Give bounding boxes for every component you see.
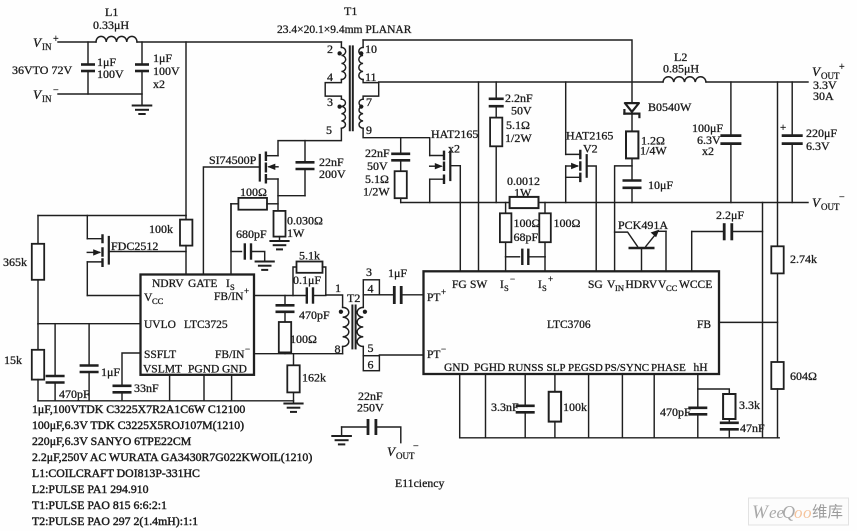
svg-text:36VTO 72V: 36VTO 72V [12, 63, 72, 77]
capacitor 22nF 250V [342, 419, 401, 443]
transistor Q2 FDC2512 label [111, 239, 158, 253]
svg-text:100k: 100k [149, 222, 173, 236]
label U1 pin UVLO [144, 319, 176, 331]
label 33nF [134, 381, 159, 395]
resistor 5.1R 1/2W (left snubber) [395, 171, 407, 202]
svg-text:470pF: 470pF [660, 405, 691, 419]
watermark text [752, 502, 843, 523]
transformer T2 winding 1-8 [343, 307, 349, 346]
resistor 100R (IS+ filter) [539, 203, 551, 257]
svg-text:3.3k: 3.3k [739, 398, 760, 412]
svg-text:33nF: 33nF [134, 381, 159, 395]
wire T2 pin4 to winding [362, 295, 364, 308]
transistor Q1 SI74500P label [209, 153, 257, 167]
capacitor 10uF [623, 181, 642, 203]
ground (input) [133, 106, 152, 115]
svg-text:0.1μF: 0.1μF [293, 273, 321, 287]
svg-text:1: 1 [335, 281, 341, 295]
label 2.74k [790, 252, 817, 266]
label U1 pin GND [222, 364, 247, 376]
svg-text:SW: SW [470, 279, 487, 291]
node VIN- label [33, 85, 59, 104]
svg-text:FG: FG [452, 279, 467, 291]
svg-text:100Ω: 100Ω [554, 216, 581, 230]
wire PEGSD down [588, 374, 590, 438]
label U1 pin IS [226, 278, 235, 292]
svg-text:NDRV: NDRV [152, 278, 184, 290]
capacitor 33nF (SSFLT) [113, 353, 141, 401]
svg-text:10μF: 10μF [648, 178, 673, 192]
label 2.2nF 50V snubber [505, 91, 533, 118]
label pin 9 [366, 123, 372, 137]
label U2 pin SLP [547, 362, 566, 374]
capacitor 0.1uF [307, 289, 326, 303]
label T2 pin 5 [368, 341, 374, 355]
wire U1 ground rail [38, 400, 294, 402]
svg-text:4: 4 [368, 282, 374, 296]
capacitor 680pF [231, 204, 265, 261]
label pin 4 [327, 70, 333, 84]
label U2 pin IS- [500, 274, 515, 293]
wire T2 pin8 [342, 347, 344, 354]
svg-text:3.3nF: 3.3nF [491, 400, 519, 414]
wire U2 ground rail [460, 437, 780, 439]
label 100R [239, 185, 267, 199]
node VIN+ label [33, 34, 59, 52]
svg-text:7: 7 [366, 95, 372, 109]
wire GND down [231, 375, 233, 401]
wire T2 pin1 [326, 295, 343, 307]
transistor Q2 FDC2512 [87, 234, 109, 267]
svg-text:SG: SG [588, 279, 603, 291]
ground (22nF 250V) [332, 427, 351, 444]
label 22nF 50V snubber [365, 146, 390, 173]
svg-text:3: 3 [366, 265, 372, 279]
label pin 2 [327, 42, 333, 56]
wire VCC riser [665, 231, 667, 271]
node VOUT- label (bottom) [387, 441, 419, 461]
label 47nF [740, 421, 765, 435]
label 365k [3, 255, 27, 269]
label 100R 68pF [514, 216, 541, 244]
label 1uF (PT+) [388, 266, 407, 280]
svg-text:68pF: 68pF [514, 230, 539, 244]
label U2 pin IS+ [538, 274, 553, 293]
capacitor 470pF (hH) [688, 374, 707, 438]
label 22nF 250V [357, 389, 384, 415]
capacitor 47nF [720, 423, 739, 438]
svg-text:2: 2 [327, 42, 333, 56]
svg-text:162k: 162k [302, 371, 326, 385]
capacitor 22nF 50V snubber [391, 138, 410, 172]
label 470pF (hH) [660, 405, 691, 419]
svg-text:220μF,6.3V SANYO 6TPE22CM: 220μF,6.3V SANYO 6TPE22CM [32, 434, 192, 448]
wire Q2 gate to NDRV node [109, 251, 186, 253]
svg-text:23.4×20.1×9.4mm PLANAR: 23.4×20.1×9.4mm PLANAR [277, 24, 412, 36]
svg-text:T2: T2 [347, 291, 360, 305]
inductor L2 [663, 77, 706, 82]
capacitor 470pF (UVLO) [46, 324, 65, 401]
svg-text:T2:PULSE PAO 297 2(1.4mH):1:1: T2:PULSE PAO 297 2(1.4mH):1:1 [32, 514, 198, 528]
label U2 pin hH [694, 362, 708, 374]
svg-text:+: + [839, 62, 845, 73]
wire 365k top line [38, 215, 186, 217]
svg-text:50V: 50V [367, 159, 388, 173]
label U2 pin RUNSS [508, 362, 543, 374]
svg-text:RUNSS: RUNSS [508, 362, 543, 374]
capacitor 22nF 200V [278, 141, 315, 196]
transformer T2 dot pin3 [363, 310, 367, 314]
transformer T1 dot pin3 [338, 105, 342, 109]
capacitor 68pF [506, 250, 545, 264]
svg-text:−: − [413, 441, 419, 452]
wire GATE riser to Q1 gate [203, 167, 259, 275]
label U1 pin PGND [188, 364, 219, 376]
label 470pF (FB) [299, 308, 330, 322]
svg-text:250V: 250V [357, 401, 384, 415]
svg-text:1/4W: 1/4W [640, 144, 667, 158]
svg-text:−: − [510, 274, 515, 284]
svg-text:E11ciency: E11ciency [395, 476, 444, 490]
transformer T1 dot pin2 [338, 51, 342, 55]
label pin 3 [327, 95, 333, 109]
label T2 pin 1 [335, 281, 341, 295]
svg-text:VSLMT: VSLMT [143, 364, 182, 376]
label 0.0012 1W [507, 174, 540, 200]
wire GND down (U2) [459, 374, 461, 438]
label U2 pin PGHD [474, 362, 505, 374]
label U2 pin PS/SYNC [605, 362, 650, 374]
svg-text:SI74500P: SI74500P [209, 153, 257, 167]
svg-text:30A: 30A [813, 89, 834, 103]
svg-text:PGHD: PGHD [474, 362, 505, 374]
resistor 162k [287, 354, 299, 403]
svg-text:100μF,6.3V TDK C3225X5ROJ107M(: 100μF,6.3V TDK C3225X5ROJ107M(1210) [32, 418, 244, 432]
svg-text:470pF: 470pF [299, 308, 330, 322]
transformer T1 winding 7-9 [359, 99, 363, 128]
wire FB line [719, 321, 778, 323]
svg-text:680pF: 680pF [236, 227, 267, 241]
capacitor 2.2nF 50V snubber [489, 82, 504, 118]
transistor Q5 PCK491A label [618, 218, 668, 232]
svg-text:hH: hH [694, 362, 708, 374]
svg-text:0.85μH: 0.85μH [663, 62, 699, 76]
label L2 value [663, 50, 699, 76]
wire T2 pin5 winding to box [362, 347, 364, 356]
transformer T1 dot pin7 [359, 105, 363, 109]
resistor 0.030R 1W [274, 211, 286, 241]
svg-text:200V: 200V [319, 167, 346, 181]
svg-text:L1:COILCRAFT DOI813P-331HC: L1:COILCRAFT DOI813P-331HC [32, 466, 200, 480]
resistor 100R (IS- filter) [500, 203, 512, 257]
label U1 pin GATE [188, 278, 217, 290]
svg-text:6.3V: 6.3V [806, 139, 830, 153]
svg-text:220μF: 220μF [806, 126, 837, 140]
label 100k (NDRV) [149, 222, 173, 236]
watermark box [749, 498, 849, 525]
label 100k (SLP) [563, 400, 587, 414]
label U2 pin PHASE [651, 362, 686, 374]
svg-text:LTC3725: LTC3725 [184, 319, 228, 331]
transformer T1 winding 10-11 [359, 40, 363, 79]
wire SW-node rail pin11 to L2 [379, 81, 808, 83]
label 100R (FB) [290, 332, 317, 346]
resistor 100R (FB) [279, 322, 291, 354]
svg-text:T1:PULSE PAO 815 6:6:2:1: T1:PULSE PAO 815 6:6:2:1 [32, 498, 167, 512]
label T2 pin 3 [366, 265, 372, 279]
svg-text:+: + [548, 274, 553, 284]
label 470pF (UVLO) [59, 387, 90, 401]
ground (0.030R) [270, 241, 288, 249]
label 36VTO 72V [12, 63, 72, 77]
resistor 5.1R 1/2W (right snubber) [490, 118, 502, 203]
label U1 pin NDRV [152, 278, 184, 290]
node VOUT+ label [812, 62, 845, 103]
label T2 pin 8 [335, 342, 341, 356]
transformer T2 label [347, 291, 360, 305]
label L1 value [93, 5, 129, 32]
svg-text:15k: 15k [4, 353, 22, 367]
svg-text:3: 3 [327, 95, 333, 109]
svg-text:LTC3706: LTC3706 [547, 319, 591, 331]
capacitor 1uF (PT+) [379, 286, 423, 304]
svg-text:5.1k: 5.1k [299, 249, 320, 263]
transformer T1 core [350, 46, 353, 130]
wire divider feed from VOUT+ [777, 82, 779, 246]
wire VOUT- sense rail [401, 202, 808, 204]
resistor 2.74k [771, 246, 783, 362]
svg-text:IN: IN [42, 42, 52, 52]
label U2 name LTC3706 [547, 319, 591, 331]
wire Q2 drain up [86, 216, 88, 239]
wire T1 pin9 to HAT2165 drain [363, 128, 430, 155]
svg-text:CC: CC [666, 283, 678, 293]
wire VIN tap [615, 166, 632, 271]
svg-text:PS/SYNC: PS/SYNC [605, 362, 650, 374]
transistor Q3 HAT2165 x2 [430, 151, 451, 184]
svg-text:FB/IN: FB/IN [214, 291, 244, 303]
node T2 pin 4 box [363, 280, 379, 295]
transistor Q3 HAT2165 x2 label [431, 127, 478, 156]
svg-text:L1: L1 [105, 5, 118, 19]
wire T1 pin5 to SI74500P drain [278, 128, 341, 156]
label 5.1R 1/2W (left snubber) [363, 172, 390, 199]
wire IS- riser [505, 257, 507, 272]
wire VIN- line [58, 93, 142, 95]
label U2 pin PT- [427, 344, 446, 361]
svg-text:2.2μF: 2.2μF [716, 208, 744, 222]
svg-text:FB/IN: FB/IN [215, 349, 245, 361]
svg-text:FB: FB [697, 319, 711, 331]
svg-text:W: W [752, 502, 770, 523]
svg-text:x2: x2 [153, 77, 165, 91]
wire T2 pin5 to PT- [379, 354, 423, 356]
svg-text:T1: T1 [344, 4, 357, 18]
svg-text:1/2W: 1/2W [505, 131, 532, 145]
label 1uF 100V x2 [153, 51, 180, 91]
resistor 100k (SLP) [549, 374, 561, 438]
resistor 15k [32, 324, 44, 401]
capacitor 1uF (VCC) [80, 324, 99, 401]
wire PGHD down [485, 374, 487, 438]
svg-text:2.2μF,250V AC WURATA GA3430R7G: 2.2μF,250V AC WURATA GA3430R7G022KWOIL(1… [32, 450, 312, 464]
svg-text:1μF,100VTDK C3225X7R2A1C6W C12: 1μF,100VTDK C3225X7R2A1C6W C12100 [32, 402, 245, 416]
label + (220uF) [780, 122, 786, 134]
wire WCCE riser [691, 232, 693, 272]
transformer T1 dot pin10 [359, 51, 363, 55]
label U1 pin FB/IN+ [214, 286, 249, 303]
svg-text:o: o [803, 503, 812, 522]
wire Q1 source down [277, 179, 279, 211]
svg-text:V2: V2 [583, 142, 598, 156]
svg-text:−: − [245, 344, 250, 354]
label U1 pin VCC [144, 292, 164, 306]
svg-text:PCK491A: PCK491A [618, 218, 668, 232]
wire PHASE down [653, 374, 655, 438]
transformer T1 winding 3-5 [341, 99, 345, 128]
resistor 365k [32, 216, 44, 325]
wire PGND down [203, 375, 205, 401]
svg-text:GND: GND [444, 362, 469, 374]
wire Q2 source to VCC [86, 262, 88, 296]
svg-text:+: + [244, 286, 249, 296]
label U1 pin SSFLT [144, 349, 176, 361]
svg-text:PT: PT [427, 292, 440, 304]
svg-text:o: o [794, 503, 803, 522]
svg-text:1/2W: 1/2W [363, 185, 390, 199]
label Efficiency [395, 476, 444, 490]
wire VOUT- to bottom rail [762, 203, 764, 438]
label 0.030R 1W [287, 214, 323, 241]
label U2 pin SG [588, 279, 603, 291]
svg-text:x2: x2 [702, 144, 714, 158]
svg-text:CC: CC [152, 296, 164, 306]
label 100uF 6.3V x2 [692, 121, 723, 158]
capacitor 1uF 100V (first) [81, 42, 95, 94]
node VOUT- label (right) [812, 192, 845, 212]
label pin 5 [326, 123, 332, 137]
svg-text:OUT: OUT [396, 451, 415, 461]
svg-text:SLP: SLP [547, 362, 566, 374]
label U2 pin VCC [658, 279, 678, 293]
wire Q4 source down [565, 166, 567, 203]
svg-text:22nF: 22nF [365, 146, 390, 160]
label U2 pin FB [697, 319, 711, 331]
label 604R [790, 369, 817, 383]
svg-text:1μF: 1μF [153, 51, 172, 65]
wire IS riser [230, 204, 232, 275]
resistor 604R [771, 362, 783, 438]
svg-text:+: + [53, 34, 59, 45]
label U2 pin GND [444, 362, 469, 374]
op-amp U2 LTC3706 box [424, 271, 720, 374]
label T2 pin 6 [368, 358, 374, 372]
label 15k [4, 353, 22, 367]
svg-text:HAT2165: HAT2165 [431, 127, 478, 141]
resistor 5.1k [293, 262, 326, 296]
label U2 pin PT+ [427, 287, 446, 304]
transformer T1 label [277, 4, 412, 36]
wire UVLO line [38, 323, 141, 325]
wire VIN to 100k vertical [185, 42, 187, 216]
label U1 pin VSLMT [143, 364, 182, 376]
wire Q4 drain up to SW rail [565, 82, 567, 154]
label U2 pin FG [452, 279, 467, 291]
capacitor 470pF (FB) [276, 296, 295, 323]
svg-text:1W: 1W [287, 226, 305, 240]
svg-text:OUT: OUT [821, 202, 840, 212]
wire T1 pin11-pin7 jog and SW rail start [363, 80, 379, 100]
svg-text:1μF: 1μF [388, 266, 407, 280]
transistor Q5 PCK491A [615, 230, 666, 272]
label U2 pin VIN [607, 279, 624, 293]
wire Q4 gate to SG [587, 166, 597, 271]
label 3.3nF [491, 400, 519, 414]
svg-text:B0540W: B0540W [648, 100, 692, 114]
svg-text:5.1Ω: 5.1Ω [506, 118, 530, 132]
transformer T1 winding 2-4 [341, 42, 345, 79]
label U1 name LTC3725 [184, 319, 228, 331]
diode D1 B0540W [624, 103, 639, 131]
label B0540W [648, 100, 692, 114]
svg-text:50V: 50V [511, 104, 532, 118]
svg-text:5: 5 [326, 123, 332, 137]
label pin 10 [365, 42, 377, 56]
svg-text:PEGSD: PEGSD [568, 362, 603, 374]
label 5.1R 1/2W (right snubber) [505, 118, 532, 145]
label 3.3k [739, 398, 760, 412]
capacitor 3.3nF (RUNSS) [516, 374, 535, 438]
wire VSLMT down [169, 375, 171, 401]
wire VIN+ rail [58, 41, 341, 43]
label pin 11 [365, 70, 377, 84]
svg-text:100Ω: 100Ω [514, 216, 541, 230]
capacitor 220uF 6.3V [782, 82, 803, 203]
transistor Q4 HAT2165 V2 [566, 150, 587, 182]
svg-text:−: − [839, 192, 845, 203]
svg-text:100V: 100V [153, 64, 180, 78]
svg-text:PHASE: PHASE [651, 362, 686, 374]
label 2.2uF [716, 208, 744, 222]
wire SW riser [478, 82, 480, 271]
wire IS+ riser [544, 257, 546, 272]
label 1uF 100V (first) [97, 55, 124, 81]
wire T1 pin4-pin3 jog [325, 80, 341, 100]
label 10uF [648, 178, 673, 192]
svg-text:UVLO: UVLO [144, 319, 176, 331]
resistor 100R (IS sense) [231, 198, 278, 210]
transistor Q4 HAT2165 V2 label [566, 129, 613, 156]
resistor 0.0012 1W sense [510, 197, 539, 208]
svg-text:1W: 1W [514, 186, 532, 200]
label 1uF (VCC) [101, 365, 120, 379]
svg-text:+: + [441, 287, 446, 297]
transistor Q1 SI74500P [260, 152, 278, 184]
svg-text:100k: 100k [563, 400, 587, 414]
label pin 7 [366, 95, 372, 109]
svg-text:GATE: GATE [188, 278, 217, 290]
label U2 pin SW [470, 279, 487, 291]
wire FB/IN+ line [254, 295, 307, 297]
transformer T2 winding 3-5 [357, 307, 363, 346]
svg-text:0.33μH: 0.33μH [93, 18, 129, 32]
ground (162k) [284, 404, 302, 412]
svg-text:IN: IN [615, 283, 624, 293]
wire PS/SYNC down [621, 374, 623, 438]
svg-text:10: 10 [365, 42, 377, 56]
label 162k [302, 371, 326, 385]
svg-text:IN: IN [42, 94, 52, 104]
